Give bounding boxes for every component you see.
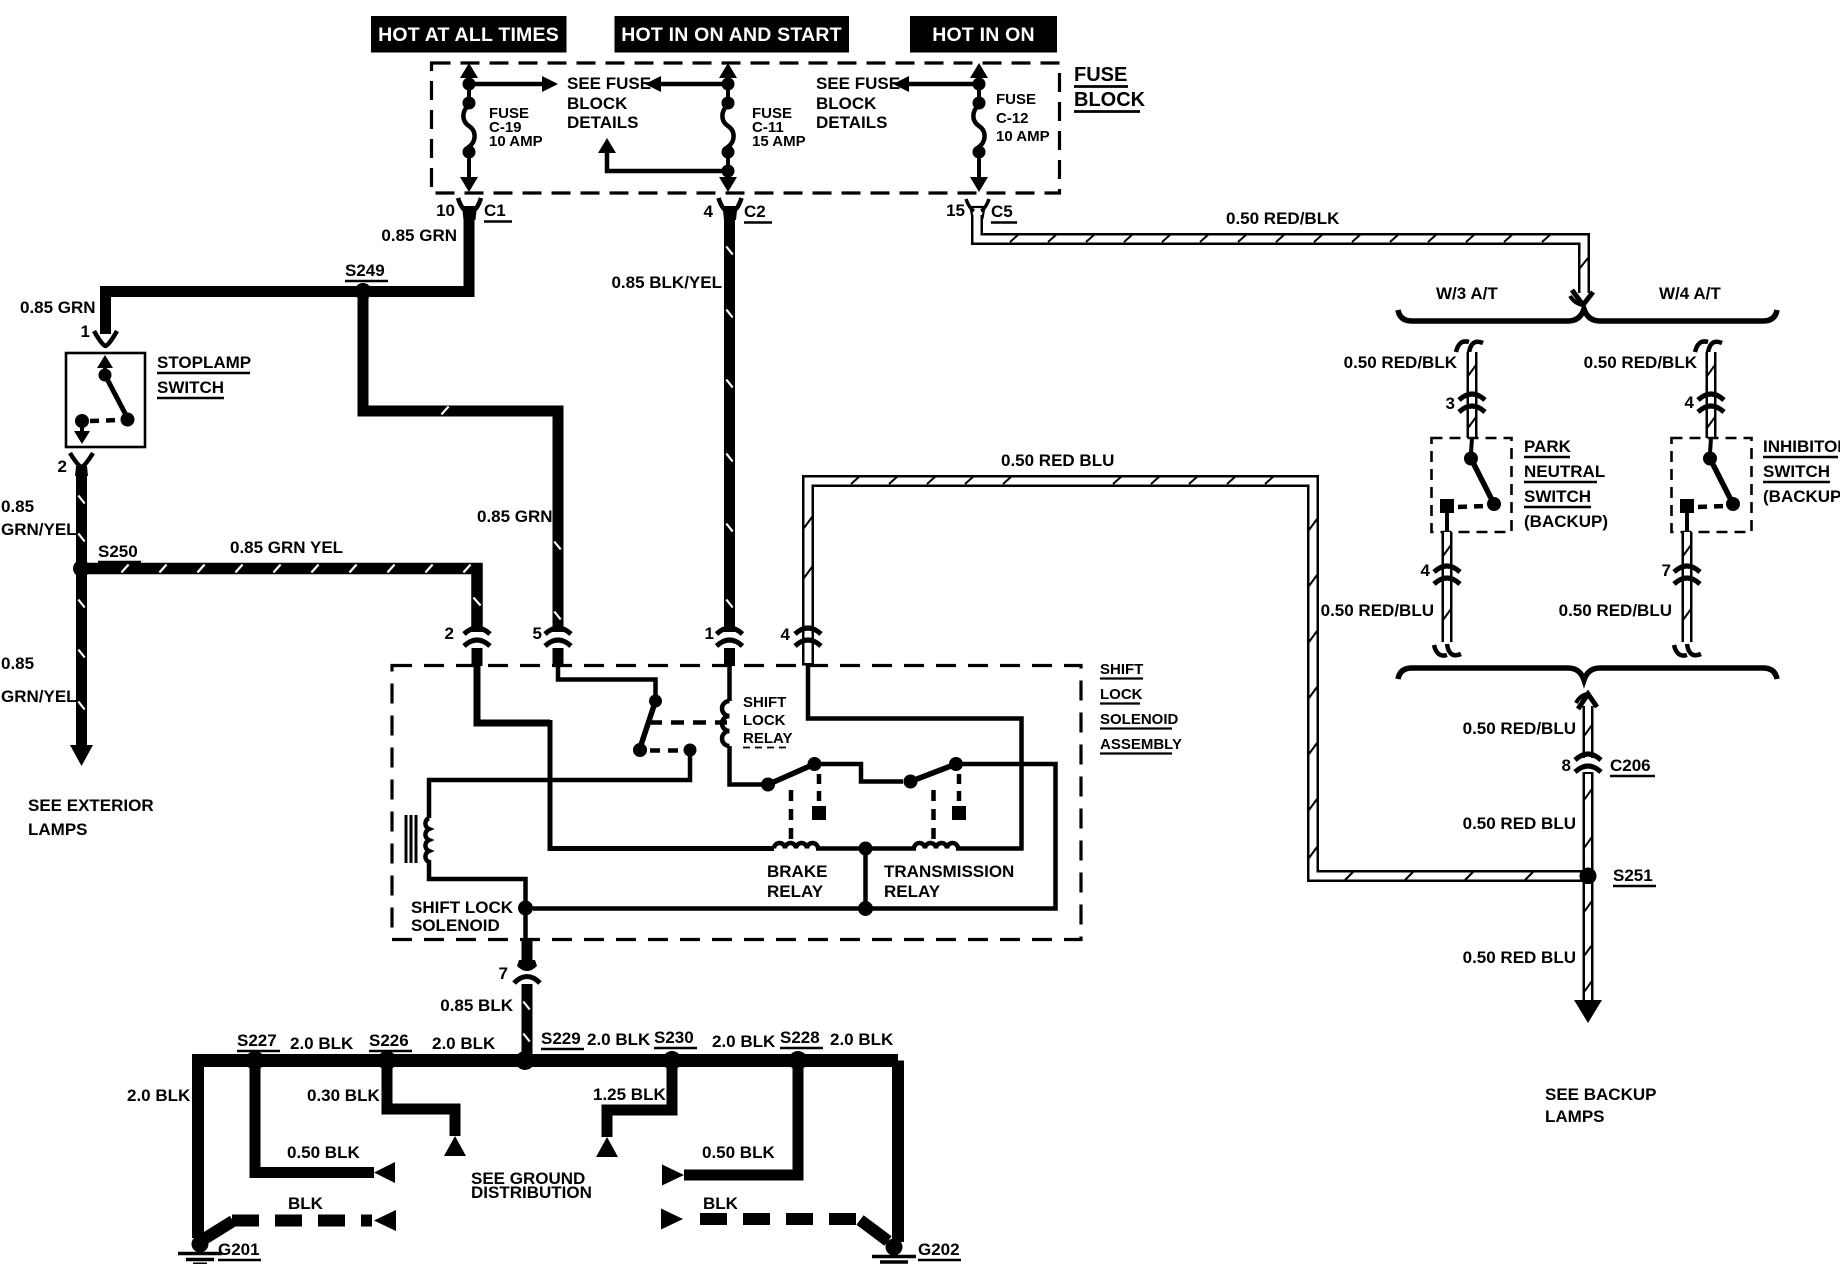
harpoon bottom of inhibitor branch: [1674, 644, 1701, 656]
svg-text:DETAILS: DETAILS: [567, 113, 638, 132]
label STOPLAMP SWITCH: [157, 353, 251, 398]
label 0.85 GRN/YEL upper: [1, 497, 77, 539]
svg-text:NEUTRAL: NEUTRAL: [1524, 462, 1605, 481]
svg-text:SEE FUSE: SEE FUSE: [567, 74, 651, 93]
dashed stub and contact square brake: [812, 774, 826, 820]
svg-text:5: 5: [533, 624, 542, 643]
svg-text:ASSEMBLY: ASSEMBLY: [1100, 736, 1182, 753]
wire node E to shift lock solenoid coil: [429, 750, 690, 818]
splice S229: [516, 1029, 585, 1070]
label SEE FUSE BLOCK DETAILS 1: [567, 74, 651, 132]
harpoon top of park neutral branch: [1456, 341, 1483, 353]
svg-text:0.50 RED BLU: 0.50 RED BLU: [1463, 814, 1576, 833]
banner HOT AT ALL TIMES: [371, 16, 567, 53]
ground G202: [872, 1239, 961, 1263]
svg-text:STOPLAMP: STOPLAMP: [157, 353, 251, 372]
svg-text:SEE FUSE: SEE FUSE: [816, 74, 900, 93]
wire 0.50 RED/BLU C206 to S251: [1584, 772, 1592, 876]
wire transmission coil to connector 4 riser: [956, 846, 1024, 851]
harpoon below bottom brace: [1578, 694, 1597, 709]
svg-text:0.85: 0.85: [1, 497, 34, 516]
wire junction J3 to box edge: [523, 908, 528, 940]
svg-text:10 AMP: 10 AMP: [489, 133, 543, 150]
svg-text:0.85 BLK: 0.85 BLK: [440, 996, 513, 1015]
svg-text:2.0 BLK: 2.0 BLK: [290, 1034, 354, 1053]
label SEE EXTERIOR LAMPS: [28, 796, 154, 839]
wire 0.85 GRN/YEL S250 to connector 2: [82, 565, 481, 633]
wire 0.85 GRN/YEL S250 to exterior lamps arrow: [70, 569, 93, 767]
svg-text:0.85 BLK/YEL: 0.85 BLK/YEL: [611, 273, 722, 292]
dashed link brake coil to arm: [789, 790, 794, 843]
svg-text:0.50 BLK: 0.50 BLK: [287, 1143, 360, 1162]
label FUSE C-11 15 AMP: [752, 105, 806, 150]
connector C2 pin 4: [704, 198, 772, 223]
label SEE GROUND DISTRIBUTION: [471, 1169, 592, 1202]
svg-text:15: 15: [946, 201, 965, 220]
label SHIFT LOCK RELAY: [743, 694, 792, 748]
svg-text:15 AMP: 15 AMP: [752, 133, 806, 150]
svg-text:PARK: PARK: [1524, 437, 1572, 456]
ground G201: [178, 1236, 261, 1264]
splice S230: [654, 1028, 697, 1070]
brake relay switch common node A: [761, 778, 775, 792]
connector C5 pin 15: [946, 199, 1017, 223]
wire solenoid coil bottom to junction J3: [429, 860, 526, 903]
label INHIBITOR SWITCH (BACKUP): [1763, 437, 1840, 506]
svg-text:SOLENOID: SOLENOID: [411, 916, 500, 935]
connector 7 inhibitor: [1662, 561, 1700, 584]
svg-text:BLK: BLK: [288, 1194, 324, 1213]
svg-text:HOT IN ON AND START: HOT IN ON AND START: [621, 24, 841, 46]
svg-text:2.0 BLK: 2.0 BLK: [432, 1034, 496, 1053]
shift lock solenoid coil: [425, 818, 429, 862]
transmission relay switch common node C: [904, 775, 918, 789]
wire 0.50 RED/BLK inhibitor branch: [1707, 352, 1715, 438]
svg-text:C1: C1: [484, 201, 506, 220]
dashed stub and contact square transmission: [952, 774, 966, 820]
svg-text:10 AMP: 10 AMP: [996, 128, 1050, 145]
bottom brace: [1398, 668, 1777, 680]
label SEE FUSE BLOCK DETAILS 2: [816, 74, 900, 132]
svg-text:8: 8: [1562, 756, 1571, 775]
svg-text:0.50 RED/BLK: 0.50 RED/BLK: [1584, 353, 1698, 372]
fuse C-12: [970, 63, 988, 192]
wire BLK dashed to G201: [204, 1210, 396, 1239]
brake relay switch arm: [768, 764, 815, 785]
svg-text:3: 3: [1446, 394, 1455, 413]
wire stoplamp pin 1 drop: [100, 292, 111, 335]
svg-text:0.50 BLK: 0.50 BLK: [702, 1143, 775, 1162]
arrow fuse C-11 to SEE FUSE: [645, 76, 728, 92]
fuse block dashed border: [432, 63, 1060, 193]
label FUSE BLOCK: [1074, 64, 1146, 112]
svg-text:4: 4: [1421, 561, 1431, 580]
wire 0.50 RED/BLU park neutral lower: [1443, 532, 1451, 642]
svg-text:0.50 RED BLU: 0.50 RED BLU: [1001, 451, 1114, 470]
svg-text:2: 2: [58, 457, 67, 476]
svg-text:LOCK: LOCK: [1100, 686, 1143, 703]
fuse C-19: [460, 63, 478, 192]
wire 0.85 GRN S249 to connector 5: [363, 292, 561, 633]
wire 0.85 GRN C1 to S249: [464, 218, 475, 297]
svg-text:1: 1: [705, 624, 714, 643]
svg-text:SWITCH: SWITCH: [1524, 487, 1591, 506]
svg-text:4: 4: [704, 202, 714, 221]
svg-text:DETAILS: DETAILS: [816, 113, 887, 132]
wire connector 5 branch to relay switch: [558, 665, 656, 697]
label PARK NEUTRAL SWITCH (BACKUP): [1524, 437, 1608, 531]
svg-text:HOT IN ON: HOT IN ON: [932, 24, 1035, 46]
fuse C-11: [719, 63, 737, 192]
wire 0.50 BLK from S228: [662, 1061, 798, 1186]
stoplamp switch contacts: [74, 355, 135, 444]
junction J1: [859, 842, 873, 856]
connector 7 below assembly: [499, 939, 540, 983]
connector C206 pin 8: [1562, 754, 1655, 776]
harpoon bottom of park neutral branch: [1434, 644, 1461, 656]
svg-text:G201: G201: [218, 1240, 260, 1259]
connector 2 shift lock assembly: [445, 624, 490, 666]
dashed link transmission coil to arm: [931, 790, 936, 843]
svg-text:C-12: C-12: [996, 110, 1029, 127]
brake relay switch node B: [808, 757, 822, 771]
banner HOT IN ON AND START: [615, 16, 850, 53]
svg-text:RELAY: RELAY: [743, 730, 792, 747]
svg-text:0.50 RED/BLU: 0.50 RED/BLU: [1321, 601, 1434, 620]
svg-text:0.85 GRN YEL: 0.85 GRN YEL: [230, 538, 343, 557]
wire 0.50 RED/BLU brace to C206: [1584, 706, 1592, 758]
svg-text:BLK: BLK: [703, 1194, 739, 1213]
wire connector 4 internal riser: [808, 665, 1022, 850]
wire 0.50 RED/BLU S251 to backup lamps: [1574, 876, 1602, 1023]
dashed mechanical link relay coil to arm: [649, 720, 727, 725]
svg-text:7: 7: [499, 964, 508, 983]
svg-text:4: 4: [781, 625, 791, 644]
svg-text:1.25 BLK: 1.25 BLK: [593, 1085, 666, 1104]
junction J3: [518, 901, 533, 916]
wire 0.85 BLK connector 7 to S229: [523, 984, 529, 1060]
svg-text:W/4 A/T: W/4 A/T: [1659, 284, 1721, 303]
shift lock relay switch arm end node: [633, 743, 647, 757]
svg-text:0.85: 0.85: [1, 654, 34, 673]
node E relay contact: [684, 744, 697, 757]
svg-text:S250: S250: [98, 542, 138, 561]
svg-text:2.0 BLK: 2.0 BLK: [587, 1030, 651, 1049]
svg-text:FUSE: FUSE: [996, 91, 1036, 108]
harpoon top of inhibitor branch: [1695, 341, 1722, 353]
connector 5 shift lock assembly: [533, 624, 571, 666]
svg-text:C2: C2: [744, 202, 766, 221]
svg-text:FUSE: FUSE: [1074, 64, 1127, 86]
transmission relay switch arm: [911, 764, 957, 782]
wire 2.0 BLK bus left drop to G201: [192, 1061, 204, 1239]
svg-text:S251: S251: [1613, 866, 1653, 885]
svg-text:S249: S249: [345, 261, 385, 280]
svg-text:SWITCH: SWITCH: [157, 378, 224, 397]
wire 0.50 BLK from S227: [255, 1061, 395, 1184]
wire node D to bottom rail: [533, 764, 1056, 909]
svg-text:0.50 RED/BLK: 0.50 RED/BLK: [1344, 353, 1458, 372]
transmission relay switch node D: [949, 757, 963, 771]
label SHIFT LOCK SOLENOID ASSEMBLY: [1100, 661, 1182, 754]
splice S228: [780, 1028, 823, 1070]
svg-text:C206: C206: [1610, 756, 1651, 775]
label TRANSMISSION RELAY: [884, 862, 1014, 901]
connector 4 park neutral: [1421, 561, 1460, 584]
svg-text:SHIFT LOCK: SHIFT LOCK: [411, 898, 514, 917]
arrow up fuse block detail feed: [598, 138, 728, 171]
wire 0.85 BLK/YEL C2 to connector 1: [726, 219, 732, 632]
svg-text:(BACKUP): (BACKUP): [1763, 487, 1840, 506]
top brace W/3 W/4: [1398, 309, 1777, 321]
connector 4 inhibitor: [1685, 393, 1724, 412]
svg-text:2.0 BLK: 2.0 BLK: [712, 1032, 776, 1051]
svg-text:INHIBITOR: INHIBITOR: [1763, 437, 1840, 456]
wire 0.30 BLK from S226: [387, 1061, 466, 1157]
svg-text:S228: S228: [780, 1028, 820, 1047]
wire BLK dashed to G202: [661, 1209, 888, 1242]
wire 0.85 GRN/YEL pin2 to S250: [78, 470, 84, 569]
park neutral switch contacts: [1440, 438, 1501, 532]
shift lock relay coil on connector 1 branch: [722, 665, 763, 785]
wire 0.50 RED/BLU connector 4 to splice S251: [804, 476, 1584, 880]
shift lock relay switch pivot node: [649, 695, 662, 708]
svg-text:SHIFT: SHIFT: [1100, 661, 1143, 678]
svg-text:SEE EXTERIOR: SEE EXTERIOR: [28, 796, 154, 815]
svg-text:SOLENOID: SOLENOID: [1100, 711, 1179, 728]
label SEE BACKUP LAMPS: [1545, 1085, 1656, 1126]
inhibitor switch contacts: [1680, 438, 1740, 532]
wire connector 2 branch to brake relay coil: [477, 665, 774, 849]
svg-text:S226: S226: [369, 1031, 409, 1050]
junction J2: [858, 901, 873, 916]
splice S227: [237, 1031, 280, 1070]
connector C1 pin 10: [436, 198, 512, 222]
pin 1 stoplamp connector: [81, 322, 117, 346]
label SHIFT LOCK SOLENOID: [411, 898, 514, 935]
svg-text:BLOCK: BLOCK: [1074, 89, 1146, 111]
shift lock solenoid assembly dashed box: [392, 666, 1081, 940]
svg-text:LOCK: LOCK: [743, 712, 786, 729]
wire junction J1 to bottom rail: [863, 849, 868, 909]
inhibitor switch dashed box: [1672, 438, 1752, 532]
harpoon down at top brace: [1572, 290, 1593, 305]
wire 0.85 GRN S249 horizontal run: [100, 286, 474, 297]
label 0.85 GRN/YEL lower: [1, 654, 77, 706]
svg-text:0.50 RED BLU: 0.50 RED BLU: [1463, 948, 1576, 967]
stoplamp switch box: [66, 353, 145, 447]
svg-text:S229: S229: [541, 1029, 581, 1048]
connector 4 contact arcs: [795, 628, 821, 646]
svg-text:HOT AT ALL TIMES: HOT AT ALL TIMES: [378, 24, 559, 46]
svg-text:G202: G202: [918, 1240, 960, 1259]
svg-text:S227: S227: [237, 1031, 277, 1050]
svg-text:GRN/YEL: GRN/YEL: [1, 687, 77, 706]
svg-text:W/3 A/T: W/3 A/T: [1436, 284, 1498, 303]
svg-text:SHIFT: SHIFT: [743, 694, 786, 711]
svg-text:0.85 GRN: 0.85 GRN: [20, 298, 96, 317]
svg-text:LAMPS: LAMPS: [28, 820, 88, 839]
wire 0.50 RED/BLK park neutral branch: [1468, 352, 1476, 438]
transmission relay coil: [914, 843, 958, 848]
svg-text:10: 10: [436, 201, 455, 220]
svg-text:TRANSMISSION: TRANSMISSION: [884, 862, 1014, 881]
connector 1 shift lock assembly: [705, 624, 743, 666]
svg-text:BLOCK: BLOCK: [816, 94, 877, 113]
svg-text:C5: C5: [991, 202, 1013, 221]
svg-text:7: 7: [1662, 561, 1671, 580]
svg-text:RELAY: RELAY: [767, 882, 824, 901]
svg-text:BRAKE: BRAKE: [767, 862, 827, 881]
dashed contact link to node E: [650, 748, 681, 753]
svg-text:S230: S230: [654, 1028, 694, 1047]
shift lock relay switch arm: [640, 701, 656, 748]
park neutral switch dashed box: [1432, 438, 1512, 532]
splice S251: [1580, 866, 1657, 886]
arrow fuse C-12 to SEE FUSE: [893, 76, 979, 92]
svg-text:SWITCH: SWITCH: [1763, 462, 1830, 481]
svg-text:2.0 BLK: 2.0 BLK: [830, 1030, 894, 1049]
svg-text:4: 4: [1685, 393, 1695, 412]
svg-text:1: 1: [81, 322, 90, 341]
svg-text:0.50 RED/BLK: 0.50 RED/BLK: [1226, 209, 1340, 228]
svg-text:SEE BACKUP: SEE BACKUP: [1545, 1085, 1656, 1104]
svg-text:GRN/YEL: GRN/YEL: [1, 520, 77, 539]
splice S226: [369, 1031, 412, 1070]
svg-text:DISTRIBUTION: DISTRIBUTION: [471, 1183, 592, 1202]
svg-text:LAMPS: LAMPS: [1545, 1107, 1605, 1126]
connector 3 park neutral: [1446, 394, 1485, 413]
brake relay coil: [774, 843, 818, 848]
svg-text:0.85 GRN: 0.85 GRN: [477, 507, 553, 526]
svg-text:BLOCK: BLOCK: [567, 94, 628, 113]
svg-text:2.0 BLK: 2.0 BLK: [127, 1086, 191, 1105]
wire node B to transmission switch common: [815, 764, 904, 782]
label FUSE C-12 10 AMP: [996, 91, 1050, 145]
wire brake coil to junction J1: [816, 846, 916, 851]
svg-text:RELAY: RELAY: [884, 882, 941, 901]
svg-text:0.50 RED/BLU: 0.50 RED/BLU: [1463, 719, 1576, 738]
svg-text:0.85 GRN: 0.85 GRN: [381, 226, 457, 245]
svg-text:2: 2: [445, 624, 454, 643]
splice S249: [345, 261, 388, 300]
svg-text:(BACKUP): (BACKUP): [1524, 512, 1608, 531]
shift lock solenoid core bars: [406, 815, 416, 863]
banner HOT IN ON: [910, 16, 1057, 53]
wire 0.50 RED/BLK C5 run: [977, 215, 1588, 293]
splice S250: [73, 542, 141, 577]
arrow fuse C-19 to SEE FUSE: [469, 76, 558, 92]
wire 1.25 BLK from S230: [596, 1061, 672, 1158]
label BRAKE RELAY: [767, 862, 827, 901]
ground bus 2.0 BLK: [192, 1054, 898, 1067]
svg-text:0.30 BLK: 0.30 BLK: [307, 1086, 380, 1105]
wire 2.0 BLK bus right drop to G202: [892, 1061, 904, 1243]
label FUSE C-19 10 AMP: [489, 105, 543, 150]
svg-text:0.50 RED/BLU: 0.50 RED/BLU: [1559, 601, 1672, 620]
pin 2 stoplamp connector: [58, 453, 93, 476]
wire 0.50 RED/BLU inhibitor lower: [1683, 532, 1691, 642]
